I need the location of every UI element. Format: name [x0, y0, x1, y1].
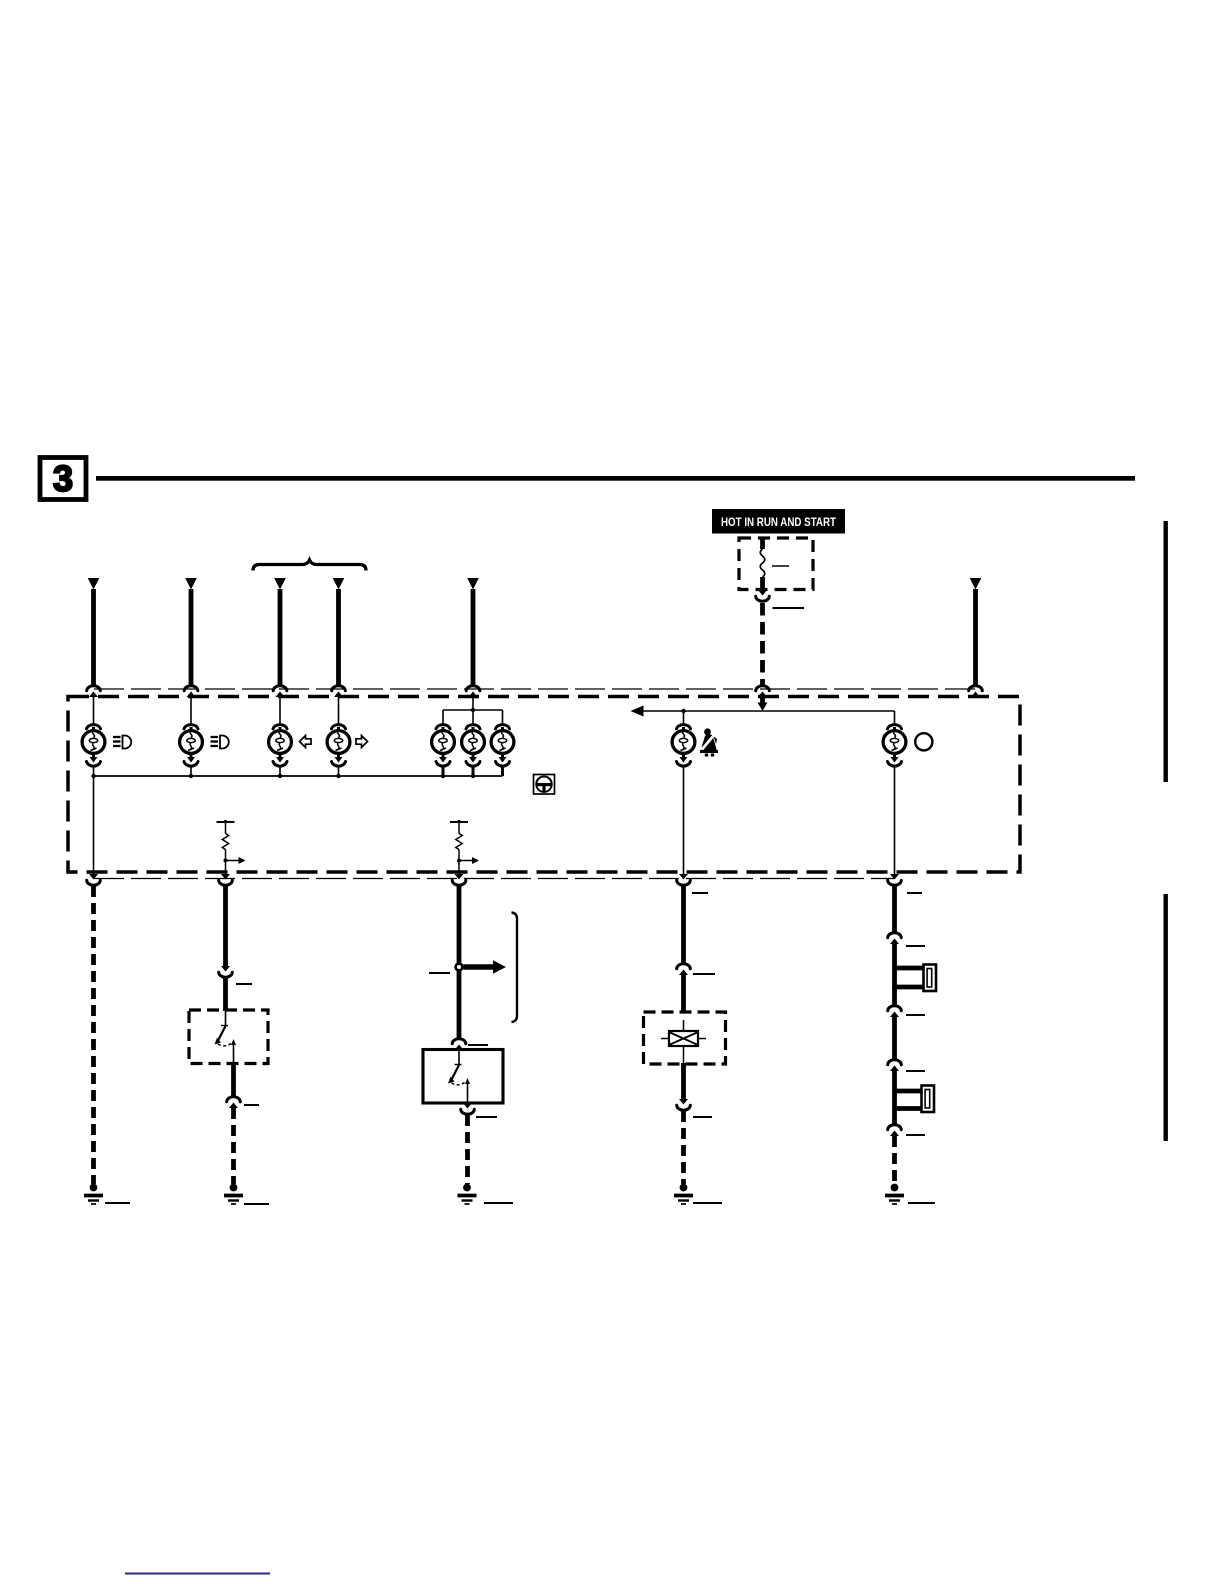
- switch S2 box: [423, 1050, 503, 1104]
- connector at border wire C: [452, 874, 466, 885]
- connector wire4 at border: [332, 686, 346, 697]
- top rule: [96, 476, 1135, 481]
- ground G3: [458, 1184, 477, 1204]
- stub L2 to bus: [190, 766, 192, 776]
- plug P1: [924, 965, 937, 992]
- wire label line: [906, 1070, 925, 1072]
- wire label line: [236, 983, 252, 985]
- node junction terminal: [456, 964, 463, 971]
- wire fused feed inside cluster: [760, 697, 765, 704]
- stub L1 to bus: [93, 766, 95, 776]
- connector wire1 at border: [87, 686, 101, 697]
- wire L9 down: [894, 766, 896, 876]
- wire below plug P1: [892, 987, 897, 1007]
- feed wire 5: [467, 578, 479, 687]
- connector above switch S2: [452, 1039, 466, 1050]
- wire label line: [476, 1116, 497, 1118]
- connector in switch chain: [219, 966, 233, 977]
- node lamp group feed: [471, 708, 475, 712]
- wire to plug P1: [892, 944, 897, 990]
- switch S1 contacts: [215, 1011, 237, 1064]
- wire to lamp 3: [279, 697, 281, 725]
- buzzer element U1: [661, 1020, 706, 1063]
- right margin bar upper: [1164, 521, 1168, 782]
- connector right chain 1: [888, 933, 902, 944]
- ground G5: [885, 1184, 904, 1204]
- connector below switch box: [227, 1097, 241, 1108]
- wire below switch box: [231, 1064, 236, 1099]
- seat belt icon: [700, 728, 718, 756]
- label HOT IN RUN AND START: [712, 509, 845, 534]
- wire middle chain to switch: [457, 970, 462, 1040]
- switch S1 box (dashed): [189, 1010, 268, 1064]
- lamp L7 illumination: [491, 725, 514, 767]
- wire seat belt chain upper: [681, 886, 686, 964]
- lamp L6 illumination: [462, 725, 485, 767]
- lamp group feed line: [443, 709, 503, 711]
- drop to lamp 5: [442, 710, 444, 725]
- stub L7 to bus: [501, 765, 504, 776]
- lamp L8 fasten seat belt indicator: [672, 725, 695, 767]
- wire below chime box: [681, 1063, 686, 1100]
- lamp L1 high beam indicator: [82, 725, 105, 767]
- circle icon: [915, 733, 932, 750]
- feed wire 3: [274, 578, 286, 687]
- wire label line: [693, 973, 715, 975]
- brace over wires 3 and 4: [253, 560, 366, 571]
- connector below chime box: [677, 1099, 691, 1110]
- ground G2 label line: [244, 1203, 269, 1205]
- right arrow icon: [356, 736, 368, 748]
- footer link line: [125, 1573, 270, 1575]
- wire label line: [906, 1014, 925, 1016]
- drop to lamp 7: [502, 710, 504, 725]
- wire label line: [693, 1116, 712, 1118]
- options bracket: [512, 913, 518, 1023]
- ground G1 label line: [105, 1202, 130, 1204]
- stub L3 to bus: [279, 766, 281, 776]
- steering wheel icon: [534, 775, 555, 795]
- seat belt warning module box (dashed): [644, 1012, 726, 1064]
- connector at border wire D: [677, 874, 691, 885]
- wire below plug P2: [892, 1109, 897, 1127]
- lamp L9 warning indicator: [883, 725, 906, 767]
- page number box 3: [40, 458, 86, 500]
- instrument cluster box (dashed): [68, 697, 1020, 873]
- connector below switch S2: [461, 1103, 475, 1114]
- wire into chime box: [681, 975, 686, 1013]
- node L8 feed: [681, 709, 685, 713]
- rheostat R2 dimmer: [450, 820, 479, 876]
- wire L8 up to feed line: [683, 711, 685, 725]
- connector at border wire A: [87, 874, 101, 885]
- wire 5 to lamp group: [472, 697, 474, 710]
- wire middle chain upper: [457, 886, 462, 963]
- node bus L1: [91, 774, 95, 778]
- connector wire6 at border: [969, 686, 983, 697]
- wire to ground G3 (dashed): [465, 1115, 470, 1184]
- connector wire3 at border: [273, 686, 287, 697]
- drop to lamp 6: [472, 710, 474, 725]
- feed wire 6: [970, 578, 982, 687]
- wire label line below fuse: [773, 607, 805, 609]
- connector right chain 2: [888, 1006, 902, 1017]
- switch S2 contacts: [448, 1050, 470, 1103]
- node bus L4: [336, 774, 340, 778]
- fuse box (dashed): [739, 538, 813, 590]
- indicator feed line with arrow: [631, 706, 895, 717]
- wire below switch S2: [467, 1103, 469, 1105]
- svg-text:3: 3: [53, 458, 73, 499]
- ground G4: [674, 1184, 693, 1204]
- node bus L3: [278, 774, 282, 778]
- wire label line: [906, 945, 925, 947]
- lamp L2 low beam indicator: [180, 725, 203, 767]
- stub L5 to bus: [442, 765, 445, 776]
- wire to lamp 1: [93, 697, 95, 725]
- lamp L5 illumination: [432, 725, 455, 767]
- wire to ground G4 (dashed): [681, 1111, 686, 1184]
- wire right chain middle: [892, 1017, 897, 1061]
- ground G3 label line: [484, 1202, 513, 1204]
- stub L6 to bus: [472, 765, 475, 776]
- headlamp icon for L2: [211, 736, 229, 749]
- wire to plug P2: [892, 1071, 897, 1110]
- wire to ground G2 (dashed): [231, 1108, 236, 1184]
- node bus L2: [189, 774, 193, 778]
- headlamp icon for L1: [113, 736, 131, 749]
- lamp L4 right turn indicator: [327, 725, 350, 767]
- stub L4 to bus: [338, 766, 340, 776]
- rheostat R1 dimmer: [217, 820, 246, 876]
- connector below fuse: [756, 590, 770, 601]
- wire label line: [468, 1044, 488, 1046]
- right margin bar lower: [1164, 894, 1168, 1141]
- wire L8 down: [683, 766, 685, 876]
- bus line under lamps: [94, 775, 503, 777]
- ground G5 label line: [908, 1202, 935, 1204]
- wire switch chain upper: [223, 886, 228, 966]
- wire to ground G5 (dashed): [892, 1136, 897, 1184]
- feed wire 4: [333, 578, 345, 687]
- wire to lamp 4: [338, 697, 340, 725]
- plug P2: [922, 1086, 935, 1113]
- wire label line: [244, 1104, 259, 1106]
- ground G2: [224, 1184, 243, 1204]
- arrow to options bracket: [464, 960, 507, 973]
- connector at border wire E: [888, 874, 902, 885]
- connector in seat belt chain: [677, 964, 691, 975]
- wire label line left of junction: [429, 972, 450, 974]
- node bus L5: [441, 774, 445, 778]
- fuse F element: [760, 539, 765, 590]
- plug P2 stubs: [895, 1091, 923, 1109]
- left arrow icon: [300, 736, 312, 748]
- wire label line: [906, 1134, 925, 1136]
- wire label line right chain: [907, 892, 922, 894]
- wire label line seat belt chain: [692, 892, 708, 894]
- wire ground run left (dashed): [91, 886, 96, 1184]
- connector right chain 3: [888, 1060, 902, 1071]
- wire bus down at left: [93, 776, 95, 876]
- feed wire 1: [88, 578, 100, 687]
- connector wire2 at border: [184, 686, 198, 697]
- ground G1: [84, 1184, 103, 1204]
- connector at border wire B: [219, 874, 233, 885]
- plug P1 stubs: [895, 968, 925, 987]
- instrument cluster inner dashed line top: [94, 688, 976, 690]
- connector fuse wire at cluster border: [756, 686, 770, 697]
- svg-text:HOT IN RUN AND START: HOT IN RUN AND START: [721, 517, 836, 529]
- wire to lamp 2: [190, 697, 192, 725]
- connector right chain 4: [888, 1125, 902, 1136]
- ground G4 label line: [693, 1202, 722, 1204]
- instrument cluster inner dashed line bottom: [94, 878, 894, 880]
- lamp L3 left turn indicator: [269, 725, 292, 767]
- wire fused feed (dashed): [760, 603, 765, 687]
- wire right chain upper: [892, 886, 897, 934]
- node bus L6: [471, 774, 475, 778]
- connector wire5 at border: [466, 686, 480, 697]
- fuse value label line: [772, 565, 789, 567]
- arrowhead into bus line: [758, 703, 768, 712]
- feed wire 2: [185, 578, 197, 687]
- wire into switch box: [223, 978, 228, 1011]
- wire L9 up to feed line: [894, 711, 896, 725]
